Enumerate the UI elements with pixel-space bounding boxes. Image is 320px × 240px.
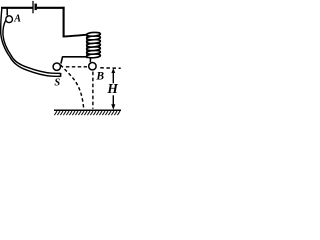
solenoid L1 loops (drawn bottom-up): [86, 32, 100, 58]
H arrow top shaft: [112, 70, 114, 83]
track inner rail: [3, 21, 60, 74]
H arrowhead down: [111, 104, 115, 110]
ammeter A1 circle: [6, 16, 13, 23]
ball B: [89, 62, 96, 69]
H arrow bottom shaft: [112, 95, 114, 107]
ground hatching: [54, 111, 120, 115]
H arrowhead up: [111, 68, 115, 73]
svg-text:A: A: [13, 14, 21, 25]
wire corner to coil top: [63, 35, 88, 37]
wire stub down to ammeter: [6, 8, 8, 16]
track outer rail: [1, 9, 61, 77]
wire top horizontal left of battery: [1, 7, 33, 9]
coil left vertical line: [86, 34, 88, 59]
track end cap: [60, 73, 62, 77]
battery long plate: [32, 1, 34, 13]
dashed level line S to B: [66, 66, 87, 68]
wire top horizontal right of battery: [37, 7, 65, 9]
wire right vertical: [63, 7, 65, 37]
ground line: [54, 109, 121, 111]
svg-text:H: H: [106, 81, 118, 96]
contact wire down to ball S: [61, 57, 63, 64]
battery short plate: [35, 4, 37, 11]
svg-text:S: S: [54, 78, 60, 89]
ball S: [53, 63, 60, 70]
dashed vertical drop line under B: [92, 72, 94, 109]
dashed level line right of B: [100, 67, 120, 70]
dashed trajectory parabola from S: [61, 65, 84, 109]
svg-text:B: B: [95, 70, 104, 82]
return wire from coil bottom: [62, 56, 87, 58]
hanger line coil to ball B: [89, 58, 91, 62]
